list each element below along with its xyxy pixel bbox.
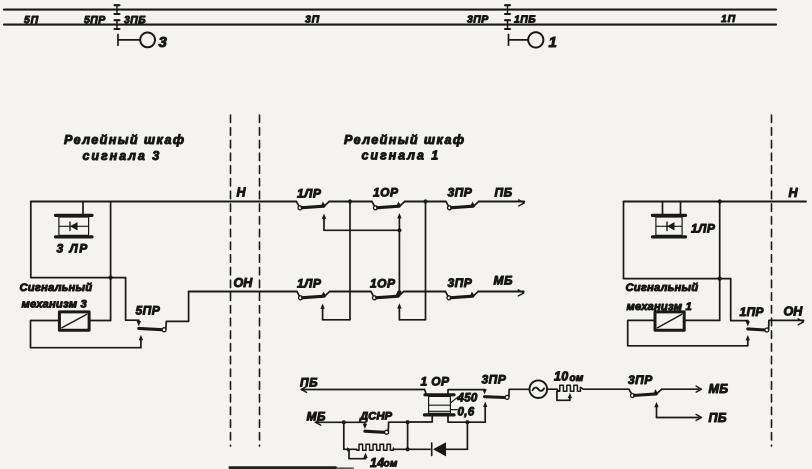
contact 1ПР hinge	[765, 328, 769, 332]
contact 1ПР label	[740, 305, 765, 319]
coil 1ОР value 0,6	[458, 407, 475, 419]
signal mechanism 1 box	[655, 312, 684, 330]
node МБ source tick	[315, 419, 320, 425]
contact 5ПР blade	[139, 328, 162, 329]
signal mechanism 3 box	[59, 312, 89, 330]
signal mechanism 3 label line 2	[22, 298, 88, 310]
contact 5ПР front arrow	[139, 335, 143, 348]
node ПБ terminal label right	[709, 411, 727, 425]
wire МБ branch down	[343, 422, 345, 449]
node junction dot resistor row	[406, 447, 410, 451]
svg-text:1П: 1П	[721, 13, 736, 25]
node 1ПБ track section label	[514, 14, 536, 26]
wire 3ПР mid hinge to AC source	[509, 389, 530, 396]
contact ДСНР hinge	[385, 430, 389, 434]
wire rail Н between 1ОР and 3ПР	[405, 201, 446, 203]
node ПБ terminal tick	[519, 200, 524, 206]
contact 3ПР right front arrow	[654, 402, 658, 418]
coil 1ОР label	[421, 375, 451, 389]
node ПБ source tick	[301, 386, 306, 392]
heading relay cabinet of signal 3 line 1	[64, 133, 185, 147]
node 3ПР track section label	[467, 14, 489, 26]
contact 3ПР bottom	[445, 292, 478, 300]
wire diode to riser	[446, 448, 467, 450]
node 3ПБ track section label	[124, 14, 146, 26]
svg-text:ОН: ОН	[234, 276, 254, 290]
svg-text:ом: ом	[570, 373, 584, 384]
svg-text:Сигнальный: Сигнальный	[626, 282, 699, 294]
svg-text:сигнала 3: сигнала 3	[83, 149, 162, 163]
contact 1ОР bottom label	[370, 277, 396, 291]
heading relay cabinet of signal 3 line 2	[83, 149, 162, 163]
svg-text:450: 450	[457, 393, 478, 405]
svg-text:1ПБ: 1ПБ	[514, 14, 536, 26]
contact 1ОР top	[372, 202, 405, 210]
contact 1ПР blade	[748, 329, 765, 330]
svg-text:Н: Н	[237, 186, 247, 200]
wire track line upper	[4, 9, 776, 11]
node ОН label right	[784, 305, 804, 319]
heading relay cabinet of signal 1 line 2	[362, 148, 441, 162]
wire coil bottom to front arrow	[448, 416, 485, 423]
svg-text:Релейный шкаф: Релейный шкаф	[64, 133, 185, 147]
node ОН label left	[234, 276, 254, 290]
heading relay cabinet of signal 1 line 1	[344, 133, 465, 147]
contact 5ПР label	[136, 304, 161, 318]
contact 3ПР right label	[628, 373, 653, 387]
contact 1ОР bottom front arrow	[397, 303, 401, 320]
svg-text:3ПБ: 3ПБ	[124, 14, 146, 26]
cabinet boundary dashed line left-1	[230, 115, 232, 446]
wire resistor 10ом to contact 3ПР right	[583, 388, 628, 390]
signal mechanism 1 label line 2	[627, 301, 692, 313]
node 5П track section label	[24, 14, 39, 26]
signal 3 label	[159, 34, 168, 51]
svg-text:1: 1	[549, 34, 557, 51]
svg-text:10: 10	[554, 370, 569, 384]
relay 3ЛР label	[57, 242, 89, 256]
diode VD1	[432, 442, 446, 456]
svg-text:3ПР: 3ПР	[628, 373, 653, 387]
relay 1ЛР	[653, 202, 686, 237]
contact 3ПР mid actuating arrow	[482, 389, 486, 394]
contact 1ПР actuating arrow	[746, 321, 750, 327]
wire track line lower	[4, 24, 776, 26]
svg-text:5П: 5П	[24, 14, 39, 26]
resistor 14ом	[357, 444, 394, 450]
wire crossover vertical A	[349, 202, 351, 320]
node junction dot МБ branch	[342, 420, 346, 424]
contact 3ПР top label	[448, 186, 473, 200]
node МБ source label	[307, 410, 327, 424]
coil 1ОР value leader 0,6	[451, 409, 457, 411]
node ПБ terminal tick right	[696, 414, 701, 420]
wire down to contact 5ПР	[126, 278, 139, 321]
svg-text:Сигнальный: Сигнальный	[20, 282, 93, 294]
svg-text:ом: ом	[384, 459, 398, 469]
svg-text:1ОР: 1ОР	[370, 277, 396, 291]
signal 1 label	[549, 34, 557, 51]
svg-text:5ПР: 5ПР	[84, 14, 106, 26]
svg-text:3: 3	[159, 34, 168, 51]
coil 1ОР value 450	[457, 393, 478, 405]
contact 3ПР bottom label	[448, 276, 473, 290]
contact 1ЛР bottom label	[297, 277, 322, 291]
wire resistor 14ом to diode	[393, 448, 430, 450]
node Н label left	[237, 186, 247, 200]
wire vertical from rail Н to mechanism 1	[719, 202, 721, 321]
node 1П track section label	[721, 13, 736, 25]
contact 1ЛР top	[296, 202, 329, 210]
contact 3ПР mid front arrow	[483, 402, 487, 423]
node junction dot under coil	[465, 420, 469, 424]
node МБ terminal tick	[518, 290, 523, 296]
wire AC source to resistor 10ом	[547, 388, 557, 390]
svg-text:3 ЛР: 3 ЛР	[57, 242, 89, 256]
svg-text:ДСНР: ДСНР	[359, 411, 392, 423]
wire right box vertical	[623, 202, 625, 279]
contact 1ЛР bottom	[297, 292, 330, 300]
contact 1ЛР top label	[297, 187, 322, 201]
svg-text:3ПР: 3ПР	[467, 14, 489, 26]
signal mechanism 3 label line 1	[20, 282, 93, 294]
wire right box horizontal	[624, 278, 720, 280]
wire rail Н right section	[624, 201, 807, 203]
node МБ terminal tick right	[696, 386, 701, 392]
resistor 10ом tap strap	[556, 389, 572, 401]
svg-text:1ОР: 1ОР	[373, 186, 399, 200]
contact 1ПР front arrow	[746, 335, 750, 346]
svg-text:1ЛР: 1ЛР	[691, 222, 716, 236]
node МБ terminal label	[494, 274, 514, 288]
wire coil top to contact 3ПР	[448, 390, 485, 394]
node junction dot cross link	[397, 228, 401, 232]
coil 1ОР winding	[425, 395, 455, 415]
wire crossover vertical B	[425, 202, 427, 320]
svg-text:5ПР: 5ПР	[136, 304, 161, 318]
wire front arrow to ПБ terminal	[657, 417, 699, 419]
svg-text:механизм 3: механизм 3	[22, 298, 88, 310]
wire left box vertical	[30, 202, 32, 278]
coil 1ОР value leader 450	[451, 397, 458, 403]
wire vertical beside relay 3ЛР	[110, 202, 112, 321]
svg-text:ПБ: ПБ	[300, 376, 318, 390]
wire L-link from 1ОР bottom to vertical B	[399, 319, 425, 321]
svg-text:3П: 3П	[305, 14, 320, 26]
contact ДСНР label	[359, 411, 392, 423]
wire rail ОН between 1ЛР and 1ОР	[330, 291, 371, 293]
resistor 10ом	[557, 385, 583, 391]
wire L-link from 1ЛР bottom to vertical A	[323, 319, 350, 321]
insulated joint between 5ПР and 3ПБ	[115, 5, 120, 29]
wire rail Н from 3ПР to ПБ terminal	[479, 201, 525, 203]
svg-text:3ПР: 3ПР	[482, 373, 507, 387]
svg-text:3ПР: 3ПР	[448, 186, 473, 200]
wire rail ОН from 3ПР to МБ terminal	[478, 291, 524, 293]
relay 3ЛР	[56, 202, 93, 237]
node 3П track section label	[305, 14, 320, 26]
signal 3 mast and head	[118, 33, 155, 48]
wire mechanism 3 lower loop	[31, 321, 141, 348]
wire from 1ПР hinge to rail ОН right	[769, 320, 804, 329]
contact 3ПР mid hinge	[505, 395, 509, 399]
node МБ terminal label right	[709, 382, 729, 396]
node ОН terminal tick right	[798, 319, 803, 325]
contact 3ПР mid blade	[485, 395, 506, 399]
svg-text:механизм 1: механизм 1	[627, 301, 692, 313]
signal 1 mast and head	[509, 32, 544, 47]
svg-text:1 ОР: 1 ОР	[421, 375, 451, 389]
wire 3ПР right to МБ terminal	[662, 388, 699, 390]
node junction blob at 1ОР bottom	[398, 290, 402, 294]
insulated joint between 3ПР and 1ПБ	[505, 5, 510, 29]
contact 3ПР right	[629, 389, 662, 397]
svg-text:МБ: МБ	[494, 274, 514, 288]
wire vertical to 1ОР bottom blade	[397, 230, 401, 296]
wire coil bottom-left lead	[408, 416, 433, 423]
contact ДСНР blade	[365, 431, 385, 432]
node junction dot B on rail Н	[423, 199, 427, 203]
resistor 10ом label	[554, 370, 584, 385]
svg-text:Н: Н	[789, 186, 799, 200]
node junction dot relay branch	[109, 276, 113, 280]
svg-text:ОН: ОН	[784, 305, 804, 319]
wire mechanism 1 to vertical	[684, 319, 720, 321]
wire from 5ПР hinge to rail ОН	[166, 292, 189, 330]
svg-text:1ЛР: 1ЛР	[297, 187, 322, 201]
svg-text:ПБ: ПБ	[709, 411, 727, 425]
wire mechanism 1 lower loop	[628, 320, 748, 345]
wire branch to contact 1ПР	[720, 279, 748, 321]
node junction dot right box	[718, 277, 722, 281]
wire vertical dot to resistor row	[407, 422, 409, 449]
contact 1ЛР bottom front arrow	[320, 304, 324, 320]
contact ДСНР actuating arrow	[363, 422, 367, 429]
wire rail ОН left section	[189, 291, 297, 293]
cabinet boundary dashed line left-2	[259, 115, 261, 446]
wire ДСНР hinge up and right	[388, 422, 407, 431]
svg-text:3ПР: 3ПР	[448, 276, 473, 290]
wire to resistor 14ом	[344, 448, 357, 450]
svg-text:МБ: МБ	[709, 382, 729, 396]
contact 3ПР mid label	[482, 373, 507, 387]
wire rail Н between 1ЛР and 1ОР	[329, 201, 372, 203]
resistor 14ом label	[370, 456, 398, 469]
cabinet boundary dashed line right	[771, 115, 773, 446]
coil 1ОР step in	[425, 390, 426, 394]
wire rail ОН between 1ОР and 3ПР	[404, 291, 446, 293]
node ПБ source label	[300, 376, 318, 390]
node Н label right	[789, 186, 799, 200]
resistor 14ом tap strap	[347, 447, 368, 458]
svg-text:МБ: МБ	[307, 410, 327, 424]
wire left box horizontal	[31, 277, 126, 279]
node junction dot A on rail Н	[348, 199, 352, 203]
wire ПБ feed	[301, 389, 424, 391]
contact 3ПР top	[446, 202, 479, 210]
svg-text:сигнала 1: сигнала 1	[362, 148, 441, 162]
contact 5ПР hinge	[162, 328, 166, 332]
contact 5ПР actuating arrow	[137, 320, 141, 326]
svg-text:1ПР: 1ПР	[740, 305, 765, 319]
contact 1ОР top front arrow	[397, 213, 401, 230]
node 5ПР track section label	[84, 14, 106, 26]
wire rail Н from left corner to contact 1ЛР	[31, 201, 297, 203]
wire cross link upper	[324, 229, 399, 231]
contact 1ОР bottom	[371, 292, 404, 300]
svg-text:14: 14	[370, 456, 385, 469]
svg-text:Релейный шкаф: Релейный шкаф	[344, 133, 465, 147]
signal mechanism 1 label line 1	[626, 282, 699, 294]
svg-text:ПБ: ПБ	[495, 186, 513, 200]
wire mechanism 3 to vertical	[89, 320, 111, 322]
AC source	[530, 380, 548, 398]
wire riser to coil bottom	[466, 422, 468, 449]
wire МБ feed	[315, 421, 365, 423]
svg-text:0,6: 0,6	[458, 407, 475, 419]
scan artifact bottom edge	[229, 466, 355, 469]
relay 1ЛР label	[691, 222, 716, 236]
contact 1ОР top label	[373, 186, 399, 200]
svg-text:1ЛР: 1ЛР	[297, 277, 322, 291]
node junction dot above diode	[406, 420, 410, 424]
node ПБ terminal label	[495, 186, 513, 200]
node junction dot rail Н right	[718, 199, 722, 203]
contact 1ЛР top front arrow	[322, 214, 326, 231]
